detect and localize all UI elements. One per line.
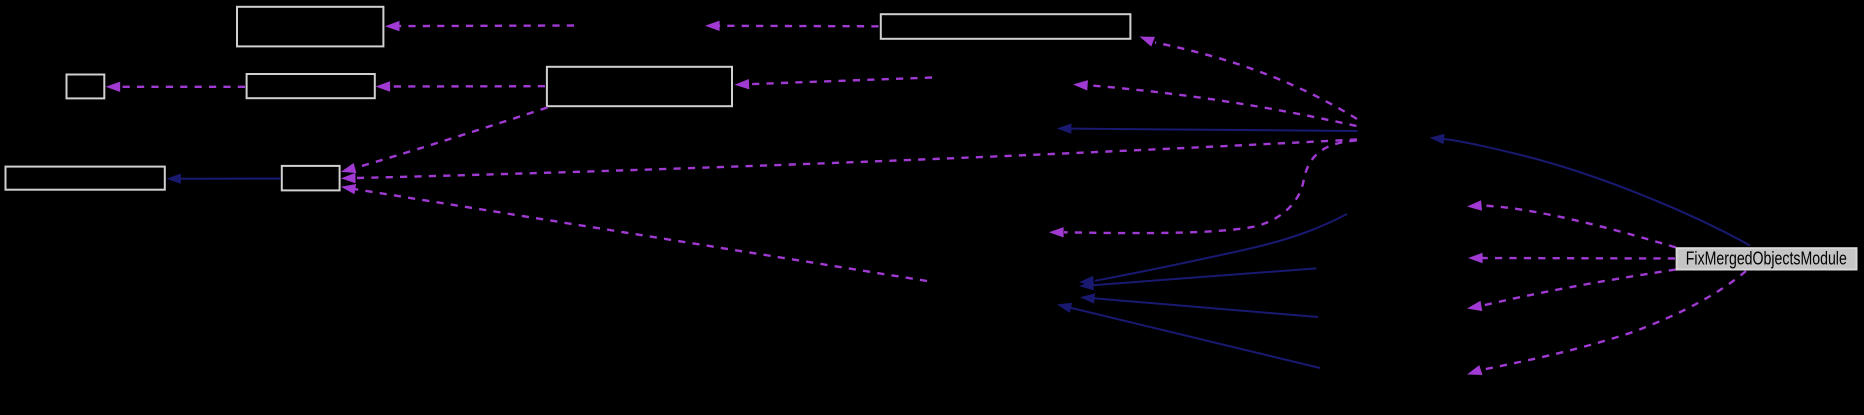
node box A1 (top-left, two-line, empty) [237, 7, 383, 47]
edge R4 <- FixMergedObjectsModule (dashed curve) [1467, 271, 1746, 375]
edge B2 <- M1 (dashed) [735, 78, 933, 90]
edge M4 <- R4 (blue) [1057, 303, 1320, 368]
node box A2 (small, row2 far-left) [67, 75, 105, 99]
edge M0 <- B1 (dashed) [705, 21, 879, 31]
edge A5 <- N1 (long dashed) [341, 140, 1357, 184]
edge A2 <- A3 (dashed) [106, 82, 245, 92]
edge M3 <- R3 (blue) [1080, 293, 1318, 317]
node box B2 (middle two-line) [547, 67, 732, 106]
edge M6 <- N1 (dashed S-curve) [1049, 141, 1357, 238]
edge R3 <- FixMergedObjectsModule (dashed) [1467, 270, 1676, 312]
edge A5 <- M3 (dashed diagonal) [341, 184, 927, 281]
edge A4 <- A5 (blue) [166, 174, 281, 184]
edge A5 <- B2 (dashed) [341, 108, 548, 174]
edge R2 <- FixMergedObjectsModule (dashed) [1468, 253, 1675, 263]
edge A3 <- B2 (dashed) [376, 81, 546, 91]
node box A5 (bottom small hub) [282, 166, 340, 191]
node box A4 (bottom-left long) [6, 167, 165, 190]
edge R1 <- FixMergedObjectsModule (dashed) [1467, 200, 1676, 247]
svg-text:FixMergedObjectsModule: FixMergedObjectsModule [1686, 247, 1847, 268]
edge B1 <- N1 (dashed curve) [1140, 37, 1358, 120]
edge N1 <- FixMergedObjectsModule (blue curve) [1430, 134, 1751, 246]
node FixMergedObjectsModule (highlighted current node) [1677, 247, 1857, 269]
edge M1 <- N1 (dashed curve) [1073, 80, 1357, 126]
edge A1 <- M0 (dashed) [385, 21, 574, 31]
edge M3 <- R2 (blue) [1079, 268, 1316, 290]
node box B1 (top wide) [881, 14, 1131, 39]
edge M3 <- R1 (blue curve) [1079, 214, 1347, 286]
node box A3 (row2) [247, 74, 375, 98]
edge M2 <- N1 (blue) [1057, 123, 1358, 133]
